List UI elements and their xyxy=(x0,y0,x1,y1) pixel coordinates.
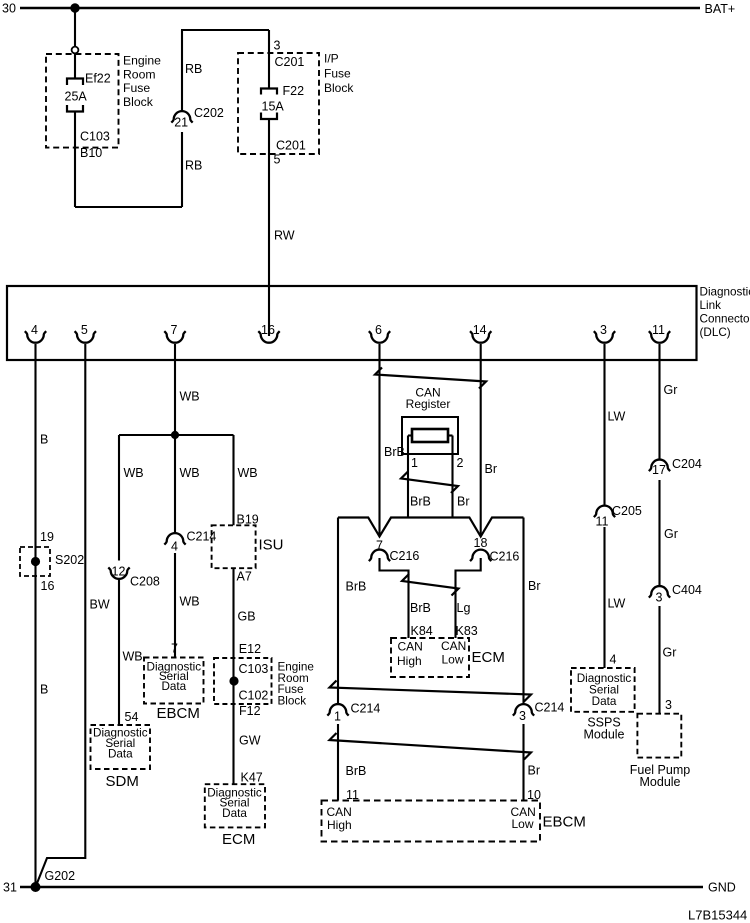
svg-text:7: 7 xyxy=(376,539,383,553)
svg-text:C216: C216 xyxy=(490,550,520,564)
svg-text:Br: Br xyxy=(457,495,470,509)
svg-text:Gr: Gr xyxy=(663,646,677,660)
svg-text:Gr: Gr xyxy=(664,383,678,397)
svg-text:BrB: BrB xyxy=(346,580,367,594)
svg-text:3: 3 xyxy=(519,709,526,723)
svg-text:3: 3 xyxy=(274,39,281,53)
svg-text:ECM: ECM xyxy=(472,649,505,666)
svg-text:Lg: Lg xyxy=(457,601,471,615)
svg-text:Link: Link xyxy=(700,299,722,312)
svg-text:ECM: ECM xyxy=(222,831,255,848)
svg-text:Br: Br xyxy=(528,579,541,593)
svg-text:Diagnostic: Diagnostic xyxy=(700,286,750,299)
svg-text:17: 17 xyxy=(652,463,666,477)
svg-text:C201: C201 xyxy=(276,139,306,153)
svg-text:WB: WB xyxy=(123,650,143,664)
svg-text:5: 5 xyxy=(81,323,88,337)
svg-text:19: 19 xyxy=(40,530,54,544)
svg-text:Low: Low xyxy=(512,817,534,831)
svg-text:14: 14 xyxy=(473,323,487,337)
svg-text:C216: C216 xyxy=(390,549,420,563)
svg-text:C214: C214 xyxy=(351,702,381,716)
svg-text:B: B xyxy=(40,683,48,697)
svg-text:B19: B19 xyxy=(237,513,259,527)
svg-text:LW: LW xyxy=(608,597,626,611)
svg-text:30: 30 xyxy=(2,2,16,16)
svg-text:C204: C204 xyxy=(672,457,702,471)
svg-text:25A: 25A xyxy=(65,90,88,104)
svg-text:I/P: I/P xyxy=(324,52,339,66)
svg-text:BrB: BrB xyxy=(410,495,431,509)
svg-text:16: 16 xyxy=(261,323,275,337)
svg-text:WB: WB xyxy=(238,466,258,480)
svg-text:4: 4 xyxy=(31,323,38,337)
svg-text:S202: S202 xyxy=(55,553,84,567)
svg-text:K47: K47 xyxy=(241,771,263,785)
svg-text:C404: C404 xyxy=(672,583,702,597)
svg-text:Register: Register xyxy=(406,397,451,411)
svg-text:Ef22: Ef22 xyxy=(85,72,111,86)
svg-text:11: 11 xyxy=(596,515,609,529)
svg-text:Br: Br xyxy=(485,462,498,476)
svg-text:C102: C102 xyxy=(239,688,269,702)
svg-text:16: 16 xyxy=(41,579,55,593)
svg-text:Gr: Gr xyxy=(664,527,678,541)
svg-text:Module: Module xyxy=(640,775,681,789)
svg-text:Fuse: Fuse xyxy=(123,81,150,95)
svg-text:C205: C205 xyxy=(612,504,642,518)
svg-text:RW: RW xyxy=(274,229,295,243)
svg-text:11: 11 xyxy=(652,323,665,337)
svg-text:7: 7 xyxy=(171,642,178,656)
svg-text:7: 7 xyxy=(171,323,178,337)
svg-text:WB: WB xyxy=(180,466,200,480)
svg-text:CAN: CAN xyxy=(327,805,352,819)
svg-text:3: 3 xyxy=(656,591,663,605)
svg-text:BrB: BrB xyxy=(346,764,367,778)
svg-text:CAN: CAN xyxy=(441,639,466,653)
svg-text:Data: Data xyxy=(108,747,133,760)
svg-text:Br: Br xyxy=(528,764,541,778)
svg-text:54: 54 xyxy=(125,710,139,724)
svg-text:B: B xyxy=(40,433,48,447)
svg-text:12: 12 xyxy=(112,565,126,579)
svg-text:K83: K83 xyxy=(456,624,478,638)
svg-text:15A: 15A xyxy=(262,100,285,114)
svg-text:RB: RB xyxy=(185,62,202,76)
svg-text:BrB: BrB xyxy=(410,601,431,615)
svg-text:4: 4 xyxy=(171,540,178,554)
svg-text:Block: Block xyxy=(278,694,307,707)
svg-text:CAN: CAN xyxy=(398,640,423,654)
svg-text:Block: Block xyxy=(324,81,354,95)
svg-text:C202: C202 xyxy=(194,106,224,120)
svg-text:L7B15344: L7B15344 xyxy=(688,908,747,923)
svg-text:GND: GND xyxy=(708,881,736,895)
svg-text:High: High xyxy=(397,654,422,668)
svg-text:Low: Low xyxy=(442,653,464,667)
svg-text:C201: C201 xyxy=(275,55,305,69)
svg-text:WB: WB xyxy=(180,595,200,609)
svg-text:EBCM: EBCM xyxy=(543,814,586,831)
svg-text:31: 31 xyxy=(3,881,17,895)
svg-text:Fuse: Fuse xyxy=(324,66,351,80)
svg-text:C214: C214 xyxy=(535,701,565,715)
svg-text:5: 5 xyxy=(274,153,281,167)
svg-text:GW: GW xyxy=(239,734,261,748)
svg-text:Room: Room xyxy=(123,67,156,81)
svg-text:F12: F12 xyxy=(239,704,261,718)
svg-text:C103: C103 xyxy=(239,662,269,676)
svg-text:1: 1 xyxy=(334,710,341,724)
svg-text:Module: Module xyxy=(584,728,625,742)
svg-text:G202: G202 xyxy=(45,869,76,883)
svg-text:Data: Data xyxy=(222,807,247,820)
svg-text:High: High xyxy=(327,818,352,832)
svg-text:EBCM: EBCM xyxy=(157,705,200,722)
svg-text:Connector: Connector xyxy=(700,313,750,326)
svg-text:K84: K84 xyxy=(411,624,433,638)
svg-text:WB: WB xyxy=(124,466,144,480)
svg-text:3: 3 xyxy=(665,698,672,712)
svg-text:A7: A7 xyxy=(237,570,252,584)
svg-text:BAT+: BAT+ xyxy=(705,2,736,16)
svg-text:Engine: Engine xyxy=(123,54,161,68)
svg-text:6: 6 xyxy=(375,323,382,337)
svg-text:21: 21 xyxy=(174,116,188,130)
svg-text:2: 2 xyxy=(457,456,464,470)
svg-text:3: 3 xyxy=(600,323,607,337)
svg-text:ISU: ISU xyxy=(259,537,284,554)
svg-text:F22: F22 xyxy=(283,84,305,98)
svg-text:BrB: BrB xyxy=(384,445,405,459)
svg-text:SDM: SDM xyxy=(106,773,139,790)
svg-text:RB: RB xyxy=(185,159,202,173)
svg-text:Data: Data xyxy=(161,680,186,693)
svg-text:GB: GB xyxy=(238,610,256,624)
svg-text:BW: BW xyxy=(90,598,110,612)
svg-text:4: 4 xyxy=(610,653,617,667)
svg-text:Data: Data xyxy=(592,695,617,708)
svg-text:C208: C208 xyxy=(130,575,160,589)
svg-text:E12: E12 xyxy=(239,642,261,656)
svg-text:(DLC): (DLC) xyxy=(700,326,731,339)
svg-text:LW: LW xyxy=(608,410,626,424)
svg-text:1: 1 xyxy=(411,456,418,470)
svg-text:18: 18 xyxy=(474,536,488,550)
svg-text:C103: C103 xyxy=(80,130,110,144)
svg-text:WB: WB xyxy=(180,390,200,404)
svg-text:Block: Block xyxy=(123,95,154,109)
